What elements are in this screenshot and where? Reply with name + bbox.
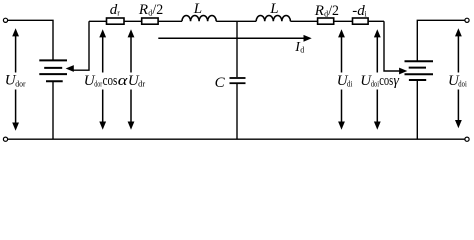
svg-text:/2: /2 — [328, 3, 339, 19]
svg-text:C: C — [215, 75, 226, 91]
svg-text:di: di — [347, 79, 353, 88]
svg-text:L: L — [269, 1, 278, 17]
svg-text:d: d — [300, 45, 304, 54]
svg-text:dor: dor — [94, 79, 102, 88]
svg-text:/2: /2 — [152, 2, 163, 18]
svg-text:R: R — [138, 2, 148, 18]
svg-text:L: L — [193, 1, 202, 17]
svg-text:cos: cos — [379, 73, 393, 89]
svg-text:r: r — [117, 8, 120, 17]
svg-text:doi: doi — [458, 79, 467, 88]
svg-text:R: R — [314, 3, 324, 19]
svg-text:dr: dr — [138, 79, 145, 88]
svg-text:cos: cos — [103, 73, 118, 89]
svg-text:dor: dor — [15, 79, 26, 88]
